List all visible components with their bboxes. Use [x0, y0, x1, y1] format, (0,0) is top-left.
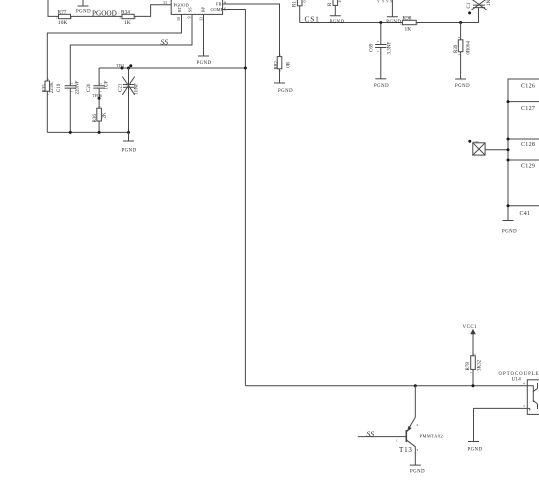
capacitor C41 branch — [507, 204, 539, 217]
svg-text:9: 9 — [187, 17, 192, 19]
svg-text:220NF: 220NF — [76, 80, 81, 94]
svg-text:221K: 221K — [50, 82, 55, 94]
svg-text:1K: 1K — [405, 26, 412, 32]
svg-text:R34: R34 — [121, 10, 130, 16]
svg-text:T13: T13 — [399, 446, 413, 454]
svg-text:C21: C21 — [119, 83, 124, 92]
svg-text:BP: BP — [201, 6, 206, 12]
svg-text:2: 2 — [417, 423, 419, 427]
svg-text:10K: 10K — [58, 20, 67, 26]
resistor R35 — [42, 78, 55, 95]
svg-text:10: 10 — [176, 17, 181, 21]
wire bottom rail of comp network — [47, 131, 128, 133]
ground PGND mid-top1 — [330, 5, 345, 25]
wire R35 bottom — [46, 91, 48, 132]
svg-text:SS: SS — [161, 38, 169, 47]
svg-text:SS: SS — [188, 7, 193, 12]
svg-text:11: 11 — [163, 0, 167, 5]
svg-text:1UF: 1UF — [105, 80, 110, 89]
test point TP146 label — [93, 94, 103, 98]
svg-text:1: 1 — [396, 438, 398, 442]
svg-text:C1: C1 — [467, 2, 472, 8]
capacitor C69 — [370, 23, 393, 79]
svg-text:PGND: PGND — [455, 84, 470, 89]
resistor R82 — [275, 54, 292, 72]
svg-text:13: 13 — [199, 17, 204, 21]
svg-text:U14: U14 — [512, 376, 522, 382]
capacitor C129 branch — [507, 159, 539, 170]
svg-text:3K32: 3K32 — [478, 359, 483, 371]
pin numbers top (cut IC pins) — [378, 0, 393, 3]
node junction C20/R36 — [98, 97, 101, 100]
wire RT pin to R35 — [47, 14, 181, 81]
ground PGND under R39 — [455, 79, 470, 89]
svg-text:1N: 1N — [487, 0, 492, 6]
ground PGND under T13 — [410, 465, 425, 474]
svg-text:PMMTA92: PMMTA92 — [420, 433, 444, 438]
node junction TP41 left — [121, 67, 124, 70]
ground PGND under C69 — [374, 79, 389, 89]
svg-text:9: 9 — [390, 0, 392, 3]
svg-text:R78: R78 — [466, 362, 471, 371]
svg-text:PGND: PGND — [502, 229, 517, 234]
svg-text:C126: C126 — [521, 84, 535, 90]
ground PGND stub top-left — [76, 0, 91, 15]
svg-text:R98: R98 — [403, 16, 412, 22]
svg-text:PGND: PGND — [468, 448, 483, 453]
svg-text:PGND: PGND — [197, 61, 212, 66]
net label PGOOD — [92, 10, 117, 18]
svg-text:4: 4 — [337, 1, 342, 3]
wire T13 base / net label SS — [358, 429, 407, 438]
svg-text:PGND: PGND — [330, 20, 345, 25]
svg-text:C127: C127 — [521, 106, 535, 112]
power VCC1 — [463, 325, 478, 356]
wire C19 bottom — [69, 88, 71, 132]
svg-text:FB: FB — [216, 2, 221, 7]
node junction C19 bottom — [69, 131, 72, 134]
resistor R1.. top (cut) — [293, 0, 308, 23]
svg-text:C69: C69 — [370, 43, 375, 52]
resistor R?? to ground (cut) — [328, 0, 342, 6]
wire R34 to IC pin 11 — [134, 5, 171, 17]
wire COMP long vertical — [223, 10, 246, 386]
svg-text:TP146: TP146 — [93, 94, 103, 98]
svg-text:6: 6 — [224, 6, 226, 11]
svg-text:PGND: PGND — [122, 148, 137, 153]
svg-text:RT: RT — [177, 7, 182, 13]
svg-text:COMP: COMP — [211, 7, 224, 12]
svg-text:9: 9 — [387, 0, 389, 3]
capacitor C19 — [57, 80, 81, 94]
svg-text:C129: C129 — [521, 164, 535, 170]
svg-text:R77: R77 — [58, 10, 67, 16]
capacitor C1.. (DNP crossed, cut at top) — [467, 0, 492, 14]
svg-text:PGND: PGND — [76, 10, 91, 15]
svg-text:3: 3 — [416, 448, 418, 452]
net label CS1 — [305, 15, 320, 24]
svg-text:PGND: PGND — [410, 470, 425, 475]
svg-text:C20: C20 — [87, 83, 92, 92]
optocoupler U14 — [499, 372, 539, 414]
svg-text:C41: C41 — [520, 211, 531, 217]
resistor R39 — [454, 23, 472, 80]
svg-text:PGOOD: PGOOD — [92, 10, 117, 18]
svg-text:R39: R39 — [454, 44, 459, 53]
wire U14 pin3 to ground — [474, 408, 528, 441]
svg-text:9: 9 — [378, 0, 380, 3]
svg-text:PGND: PGND — [278, 89, 293, 94]
wire R77 to R34 — [71, 15, 123, 17]
capacitor C128 branch — [507, 138, 539, 149]
ground PGND right bus — [502, 221, 517, 235]
svg-text:SS: SS — [367, 429, 375, 438]
svg-text:TP41: TP41 — [117, 64, 125, 68]
svg-text:PGOOD: PGOOD — [174, 2, 189, 7]
ground PGND under U14 — [468, 442, 483, 453]
wire top-left vertical to R77 — [48, 0, 59, 16]
svg-text:C128: C128 — [521, 142, 535, 148]
wire CS1 bus — [300, 22, 403, 24]
svg-text:R82: R82 — [275, 61, 280, 70]
svg-text:R35: R35 — [42, 84, 47, 93]
svg-text:0: 0 — [302, 1, 307, 3]
node junction C69 top — [379, 21, 382, 24]
net label SS — [161, 38, 169, 47]
resistor R36 — [93, 98, 108, 132]
ground PGND under BP pin — [197, 14, 212, 66]
capacitor C127 branch — [507, 100, 539, 112]
svg-text:R36: R36 — [93, 114, 98, 123]
wire R98 to C1 corner — [416, 8, 478, 23]
node junction C21 bottom — [127, 131, 130, 134]
wire bottom rail to optocoupler — [245, 385, 527, 387]
svg-text:0R: 0R — [287, 61, 292, 68]
ground PGND mid-top2 — [386, 0, 401, 25]
wire SS pin to C19 — [70, 14, 192, 85]
node junction C21 top — [127, 67, 130, 70]
capacitor DNP crossed box — [468, 140, 509, 155]
wire right capacitor bus — [508, 79, 539, 221]
svg-text:0R004: 0R004 — [467, 41, 472, 55]
capacitor C20 — [87, 68, 110, 98]
svg-text:C19: C19 — [57, 83, 62, 92]
svg-text:4: 4 — [523, 382, 525, 386]
node junction R39 top — [459, 21, 462, 24]
svg-text:VCC1: VCC1 — [463, 325, 478, 330]
ground PGND under R82 — [274, 69, 293, 94]
resistor R34 — [120, 10, 137, 27]
node junction comp/COMP — [244, 67, 247, 70]
svg-text:2K: 2K — [103, 112, 108, 119]
test point TP41 — [117, 64, 133, 68]
svg-text:3: 3 — [523, 404, 525, 408]
node junction T13 emitter/rail — [414, 384, 417, 387]
svg-text:1K: 1K — [124, 20, 131, 26]
svg-text:10NF: 10NF — [135, 83, 140, 95]
resistor R98 — [400, 16, 419, 33]
ground PGND comp network — [122, 132, 137, 153]
svg-text:3.3NF: 3.3NF — [388, 42, 393, 55]
op-amp U? PWM controller IC (cut off at top) — [163, 0, 226, 21]
node junction R36 bottom — [98, 131, 101, 134]
resistor R78 — [466, 353, 483, 386]
svg-text:PGND: PGND — [374, 84, 389, 89]
capacitor C21 (DNP crossed) — [119, 68, 140, 132]
svg-text:R1: R1 — [293, 1, 298, 7]
node junction R78/rail — [472, 384, 475, 387]
capacitor C126 branch — [521, 84, 535, 90]
svg-text:9: 9 — [382, 0, 384, 3]
wire FB to R82 — [223, 4, 280, 57]
resistor R77 — [56, 10, 73, 27]
svg-text:8: 8 — [224, 0, 226, 5]
transistor T13 PMMTA92 — [396, 386, 443, 465]
wire compensation net at y68 — [99, 67, 245, 69]
